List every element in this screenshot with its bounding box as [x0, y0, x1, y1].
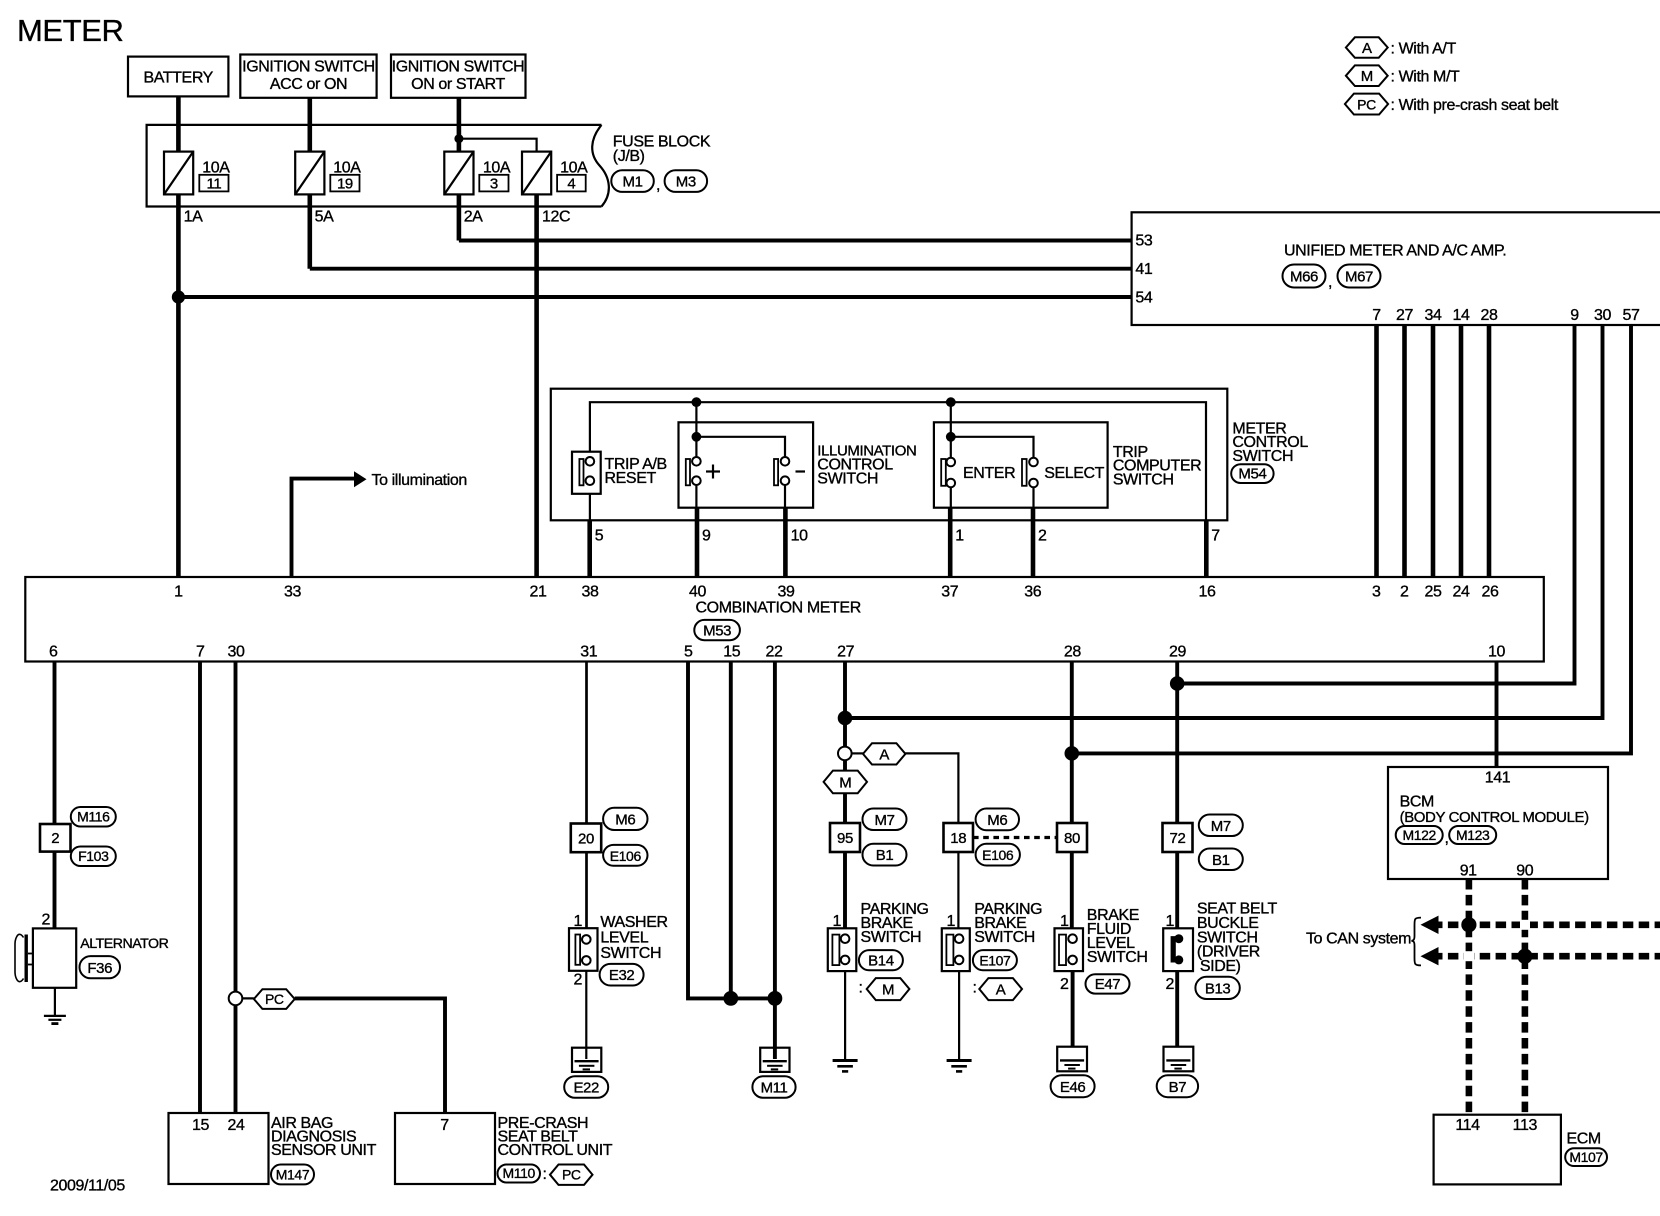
- connector B1: [863, 844, 907, 866]
- svg-text:B1: B1: [876, 847, 894, 864]
- wire unified pin 30 elbow to pin 27 column: [845, 325, 1603, 718]
- svg-text:27: 27: [837, 644, 854, 661]
- svg-text:,: ,: [1445, 830, 1449, 847]
- svg-text:2: 2: [574, 971, 583, 988]
- svg-text:WASHER: WASHER: [600, 914, 667, 931]
- ground B7 boxed: [1164, 1047, 1194, 1072]
- connector B7: [1157, 1075, 1198, 1097]
- wire A option stub: [852, 752, 863, 754]
- svg-text:1A: 1A: [184, 209, 203, 226]
- svg-text:M11: M11: [761, 1080, 788, 1097]
- hexagon M option: [867, 978, 910, 1000]
- connector E107: [973, 950, 1017, 970]
- connector E47: [1086, 974, 1130, 993]
- fuse F4: [522, 152, 551, 195]
- svg-text:BATTERY: BATTERY: [143, 70, 213, 87]
- svg-text:34: 34: [1425, 307, 1442, 324]
- wire meter pin 6 to alternator: [53, 662, 57, 929]
- connector M147: [271, 1165, 314, 1185]
- svg-text:E32: E32: [609, 967, 635, 984]
- svg-text:72: 72: [1170, 830, 1186, 847]
- seat belt buckle switch B13: [1163, 928, 1193, 1046]
- connector box 20 M6/E106: [571, 824, 601, 853]
- svg-text:M: M: [882, 982, 894, 999]
- parking brake switch B14: [828, 928, 857, 1060]
- CAN wire BCM 90 to ECM 113: [1522, 879, 1529, 1115]
- svg-text:14: 14: [1453, 307, 1470, 324]
- svg-text:26: 26: [1482, 584, 1499, 601]
- svg-text:53: 53: [1135, 232, 1152, 249]
- hexagon A option: [979, 978, 1022, 1000]
- ground E22 boxed: [572, 1048, 601, 1072]
- svg-text:COMBINATION METER: COMBINATION METER: [696, 599, 861, 616]
- wire battery feed column to pin 1: [176, 97, 181, 578]
- junction pin29/unified9: [1170, 676, 1185, 691]
- svg-text:27: 27: [1396, 307, 1413, 324]
- svg-text:F36: F36: [87, 960, 112, 977]
- svg-text:SWITCH: SWITCH: [861, 929, 922, 946]
- alternator box: [33, 928, 76, 987]
- svg-text:24: 24: [228, 1117, 245, 1134]
- svg-text:18: 18: [950, 830, 966, 847]
- svg-text:28: 28: [1481, 307, 1498, 324]
- parking brake switch E107: [942, 928, 970, 1060]
- connector M3: [665, 170, 708, 192]
- svg-text:UNIFIED METER AND A/C AMP.: UNIFIED METER AND A/C AMP.: [1284, 243, 1506, 260]
- hexagon PC: [254, 989, 295, 1009]
- svg-text:91: 91: [1460, 862, 1477, 879]
- svg-text:SELECT: SELECT: [1044, 465, 1104, 482]
- junction bus/illumination: [692, 397, 702, 407]
- connector M11: [752, 1076, 795, 1098]
- svg-text:M7: M7: [874, 812, 894, 829]
- svg-text:METER: METER: [17, 13, 124, 48]
- wire meter pin 7 to air bag unit pin 15: [198, 662, 202, 1114]
- svg-text:: With M/T: : With M/T: [1391, 69, 1461, 86]
- svg-text:B14: B14: [868, 953, 894, 970]
- wire ignition ON/START column: [457, 98, 462, 241]
- svg-text:ACC or ON: ACC or ON: [270, 76, 347, 93]
- connector box 80: [1057, 823, 1087, 852]
- svg-text:E106: E106: [610, 848, 642, 864]
- wire PC branch to pre-crash unit pin 7: [295, 998, 445, 1113]
- connector M67: [1338, 265, 1381, 288]
- ground B14: [833, 1061, 858, 1072]
- svg-text:SWITCH: SWITCH: [600, 945, 661, 962]
- wire meter pin 22 to M11 ground: [773, 662, 777, 1048]
- svg-text:2: 2: [42, 912, 51, 929]
- svg-text:1: 1: [574, 913, 583, 930]
- svg-text:M1: M1: [622, 173, 642, 190]
- svg-text:33: 33: [284, 584, 301, 601]
- fuse F11: [164, 152, 193, 195]
- svg-text:31: 31: [580, 644, 597, 661]
- unified meter and A/C amp box M66/M67: [1132, 212, 1660, 325]
- svg-text:1: 1: [1060, 913, 1069, 930]
- connector M110: [498, 1165, 541, 1183]
- dotted link box18-box80: [973, 836, 1057, 839]
- svg-text:M: M: [839, 775, 851, 792]
- brake fluid level switch E47: [1055, 928, 1084, 1046]
- svg-text:ECM: ECM: [1567, 1130, 1601, 1147]
- junction pin22/bus: [768, 991, 783, 1006]
- connector M123: [1449, 826, 1496, 844]
- svg-text:A: A: [879, 746, 889, 763]
- fuse block torn right edge: [592, 125, 609, 207]
- junction battery/54: [172, 290, 185, 303]
- wire unified pin 7 to meter pin 3: [1374, 325, 1379, 577]
- connector box 95 M7/B1: [830, 823, 860, 852]
- ignition switch ON or START box: [391, 55, 526, 98]
- svg-text:3: 3: [490, 175, 498, 192]
- svg-text:20: 20: [578, 831, 594, 848]
- select switch: [1022, 458, 1038, 508]
- svg-text:16: 16: [1199, 584, 1216, 601]
- svg-text:ALTERNATOR: ALTERNATOR: [80, 936, 168, 952]
- connector M1: [611, 170, 654, 192]
- air bag diagnosis sensor unit box M147: [169, 1113, 269, 1184]
- ground E107: [947, 1061, 972, 1072]
- connector E106: [603, 845, 647, 866]
- wire meter pin 27 to parking brake switch B14: [843, 662, 847, 935]
- combination meter box M53: [25, 577, 1544, 662]
- connector M54: [1231, 464, 1273, 483]
- svg-text:2: 2: [1038, 528, 1047, 545]
- svg-text:: With A/T: : With A/T: [1391, 41, 1457, 58]
- svg-text:B7: B7: [1169, 1079, 1187, 1096]
- option circle PC node: [229, 992, 243, 1006]
- svg-text:19: 19: [337, 175, 353, 192]
- svg-text:2: 2: [1060, 976, 1069, 993]
- svg-text:39: 39: [778, 584, 795, 601]
- svg-text:6: 6: [49, 644, 58, 661]
- fuse block (J/B) outline: [147, 125, 602, 207]
- svg-text:5A: 5A: [315, 209, 334, 226]
- svg-text:SWITCH: SWITCH: [1232, 448, 1293, 465]
- junction pin15/bus: [723, 991, 738, 1006]
- svg-text:F103: F103: [78, 848, 109, 864]
- ground E46 boxed: [1057, 1047, 1087, 1072]
- connector box 2 M116/F103: [40, 824, 71, 852]
- wire meter pin 15 to ground bus: [729, 662, 733, 999]
- CAN arrow upper: [1421, 916, 1439, 934]
- fuse number 19: [330, 175, 359, 193]
- svg-text:2: 2: [1400, 584, 1409, 601]
- svg-text:ENTER: ENTER: [963, 465, 1015, 482]
- svg-text:M107: M107: [1569, 1149, 1603, 1165]
- CAN wire BCM 91 to ECM 114: [1466, 879, 1473, 1115]
- svg-text:(J/B): (J/B): [613, 148, 645, 165]
- svg-text:: With pre-crash seat belt: : With pre-crash seat belt: [1391, 97, 1559, 114]
- plus sign: [706, 465, 720, 479]
- connector M122: [1396, 826, 1443, 844]
- svg-text:9: 9: [1570, 307, 1579, 324]
- wire unified pin 34 to meter pin 25: [1431, 325, 1436, 577]
- connector F103: [71, 847, 116, 867]
- svg-text:M123: M123: [1456, 827, 1490, 843]
- meter control switch bus wire: [590, 402, 1206, 520]
- svg-text:1: 1: [174, 584, 183, 601]
- svg-text::: :: [973, 980, 977, 997]
- wire switch pin 7 to meter pin 16: [1204, 520, 1209, 577]
- trip A/B reset switch: [572, 452, 601, 521]
- svg-text:2: 2: [51, 830, 59, 847]
- pre-crash seat belt control unit box M110: [395, 1113, 495, 1184]
- BCM box M122/M123: [1388, 767, 1608, 879]
- svg-text:7: 7: [196, 644, 205, 661]
- svg-text:SIDE): SIDE): [1200, 958, 1241, 975]
- option circle A/M split: [838, 747, 852, 761]
- svg-text:M53: M53: [703, 622, 731, 639]
- legend hexagon A: [1346, 37, 1388, 58]
- svg-text::: :: [543, 1166, 547, 1183]
- wire branch to fuse 4: [459, 139, 537, 153]
- svg-text:5: 5: [684, 644, 693, 661]
- svg-text:E106: E106: [982, 847, 1014, 863]
- svg-text:SWITCH: SWITCH: [1087, 949, 1148, 966]
- wire meter pin 29 to seat belt buckle switch: [1175, 662, 1179, 935]
- wire 41 net to unified meter: [310, 267, 1132, 271]
- wire unified pin 28 to meter pin 26: [1487, 325, 1492, 577]
- junction fuse4 branch: [454, 134, 463, 143]
- svg-text:38: 38: [582, 584, 599, 601]
- svg-text:141: 141: [1485, 769, 1511, 786]
- svg-text:PC: PC: [1357, 96, 1376, 112]
- svg-text:12C: 12C: [542, 209, 570, 226]
- junction bus/trip computer: [946, 397, 956, 407]
- wire 12C column to pin 21: [534, 152, 539, 577]
- svg-text:M110: M110: [503, 1165, 536, 1181]
- svg-text:28: 28: [1064, 644, 1081, 661]
- connector B14: [859, 950, 903, 970]
- wire unified pin 27 to meter pin 2: [1402, 325, 1407, 577]
- svg-text:M7: M7: [1211, 818, 1231, 835]
- svg-text:M116: M116: [77, 809, 110, 825]
- legend hexagon M: [1346, 65, 1388, 86]
- svg-text:M: M: [1361, 68, 1373, 85]
- wire switch pin 5 to meter pin 38: [587, 520, 592, 577]
- svg-text:30: 30: [1594, 307, 1611, 324]
- svg-text:10: 10: [1488, 644, 1505, 661]
- svg-text:3: 3: [1372, 584, 1381, 601]
- svg-text:7: 7: [1372, 307, 1381, 324]
- svg-text:40: 40: [689, 584, 706, 601]
- svg-text::: :: [859, 980, 863, 997]
- svg-text:E107: E107: [979, 953, 1011, 969]
- fuse number 11: [199, 175, 228, 193]
- illumination + switch: [686, 402, 785, 508]
- svg-text:B1: B1: [1212, 852, 1230, 869]
- illumination control switch inner box: [679, 422, 814, 507]
- svg-text:2: 2: [1166, 976, 1175, 993]
- brace: [1412, 918, 1422, 966]
- hexagon PC pre-crash: [550, 1165, 593, 1185]
- svg-text:2A: 2A: [464, 209, 483, 226]
- svg-text:M3: M3: [676, 173, 696, 190]
- svg-text:E22: E22: [573, 1080, 599, 1097]
- svg-text:E46: E46: [1060, 1079, 1086, 1096]
- wire switch pin 1 to meter pin 37: [948, 508, 953, 577]
- svg-text:1: 1: [955, 528, 964, 545]
- svg-text:M54: M54: [1238, 466, 1266, 483]
- hexagon A: [863, 743, 905, 764]
- svg-text:22: 22: [766, 644, 783, 661]
- svg-text:57: 57: [1623, 307, 1640, 324]
- svg-text:CONTROL UNIT: CONTROL UNIT: [498, 1142, 613, 1159]
- svg-text:PC: PC: [265, 991, 284, 1007]
- ECM box M107: [1434, 1115, 1561, 1185]
- svg-text:24: 24: [1453, 584, 1470, 601]
- wire meter pin 10 to BCM pin 141: [1495, 662, 1499, 768]
- svg-text:1: 1: [947, 913, 956, 930]
- ignition switch ACC or ON box: [240, 55, 376, 98]
- connector F36: [80, 956, 121, 978]
- fuse F3: [444, 152, 473, 195]
- svg-text:SWITCH: SWITCH: [1113, 472, 1174, 489]
- ground alternator: [44, 1016, 66, 1024]
- connector B1: [1199, 849, 1243, 871]
- illumination - switch: [774, 457, 789, 508]
- svg-text:21: 21: [530, 584, 547, 601]
- svg-text:25: 25: [1425, 584, 1442, 601]
- junction CAN lower/90: [1517, 949, 1532, 964]
- svg-text:90: 90: [1516, 862, 1533, 879]
- hexagon M: [824, 771, 867, 794]
- svg-text:1: 1: [833, 913, 842, 930]
- svg-text:M147: M147: [276, 1167, 310, 1183]
- svg-text:IGNITION SWITCH: IGNITION SWITCH: [392, 59, 525, 76]
- svg-text:SENSOR UNIT: SENSOR UNIT: [271, 1142, 377, 1159]
- svg-text:To CAN system: To CAN system: [1306, 931, 1411, 948]
- svg-text:7: 7: [440, 1117, 449, 1134]
- svg-text:15: 15: [723, 644, 740, 661]
- svg-text:RESET: RESET: [605, 470, 657, 487]
- legend hexagon PC: [1345, 94, 1388, 115]
- svg-text:A: A: [996, 982, 1006, 999]
- connector E22: [564, 1076, 608, 1098]
- svg-text:M66: M66: [1290, 269, 1318, 286]
- fuse number 4: [557, 175, 586, 193]
- svg-text:To illumination: To illumination: [372, 472, 467, 489]
- enter switch: [941, 402, 1033, 508]
- svg-text:B13: B13: [1205, 981, 1231, 998]
- alternator pulley symbol: [15, 934, 33, 982]
- svg-text:54: 54: [1135, 289, 1152, 306]
- wire 54 net to unified meter: [178, 295, 1131, 299]
- ground M11 boxed: [760, 1048, 789, 1072]
- svg-text:95: 95: [837, 830, 853, 847]
- svg-text:M122: M122: [1402, 827, 1436, 843]
- fuse F19: [295, 152, 324, 195]
- connector M107: [1565, 1148, 1607, 1166]
- meter control switch outer box M54: [551, 389, 1228, 521]
- wire switch pin 10 to meter pin 39: [783, 508, 788, 577]
- svg-text:11: 11: [207, 175, 222, 192]
- svg-text:37: 37: [941, 584, 958, 601]
- svg-text:29: 29: [1169, 644, 1186, 661]
- svg-text:,: ,: [656, 177, 660, 194]
- svg-text:A: A: [1362, 40, 1372, 57]
- svg-text:9: 9: [702, 528, 711, 545]
- svg-text:10: 10: [791, 528, 808, 545]
- wire alternator to ground: [54, 988, 56, 1016]
- CAN arrow lower: [1421, 947, 1439, 965]
- svg-text:M67: M67: [1345, 269, 1373, 286]
- wire ignition ACC column: [307, 98, 312, 269]
- wire meter pin 30 to air bag unit pin 24: [234, 662, 238, 1114]
- svg-text:,: ,: [1328, 274, 1332, 291]
- svg-text:41: 41: [1135, 261, 1152, 278]
- wire meter pin 31 to washer level switch: [585, 662, 588, 936]
- svg-text:ON or START: ON or START: [411, 76, 505, 93]
- svg-text:36: 36: [1024, 584, 1041, 601]
- connector box 18 M6/E106: [944, 823, 974, 852]
- svg-text:80: 80: [1064, 830, 1080, 847]
- svg-text:4: 4: [567, 175, 575, 192]
- svg-text:2009/11/05: 2009/11/05: [50, 1178, 125, 1195]
- svg-text:IGNITION SWITCH: IGNITION SWITCH: [242, 59, 375, 76]
- fuse number 3: [479, 175, 508, 193]
- connector box 72 M7/B1: [1163, 823, 1193, 852]
- svg-text:7: 7: [1211, 528, 1220, 545]
- connector M7: [863, 809, 907, 831]
- wire unified pin 14 to meter pin 24: [1459, 325, 1464, 577]
- svg-text:SWITCH: SWITCH: [817, 470, 878, 487]
- connector M53: [694, 620, 740, 640]
- connector M66: [1283, 265, 1326, 288]
- connector B13: [1195, 977, 1239, 999]
- wire PC option stub: [236, 997, 254, 999]
- svg-text:30: 30: [228, 644, 245, 661]
- CAN bus upper line: [1432, 921, 1660, 928]
- connector M6: [603, 808, 647, 830]
- connector E46: [1051, 1075, 1095, 1097]
- junction pin28/unified57: [1065, 746, 1080, 761]
- washer level switch E32: [569, 928, 598, 1059]
- trip computer switch inner box: [934, 422, 1108, 507]
- connector M7: [1199, 815, 1243, 837]
- connector E106: [976, 844, 1020, 866]
- wire 53 net to unified meter: [459, 239, 1132, 243]
- junction pin27/unified30: [838, 711, 853, 726]
- wire to illumination with arrow: [292, 479, 356, 577]
- connector M6: [976, 809, 1019, 831]
- svg-text:LEVEL: LEVEL: [600, 930, 648, 947]
- CAN bus lower line: [1432, 953, 1660, 960]
- wire A branch to parking brake switch E107: [905, 753, 958, 934]
- battery box: [128, 57, 228, 97]
- wire switch pin 2 to meter pin 36: [1031, 508, 1036, 577]
- svg-text:5: 5: [595, 528, 604, 545]
- svg-text:113: 113: [1513, 1117, 1538, 1134]
- svg-text:PC: PC: [562, 1167, 581, 1183]
- crossing breaks: [1520, 920, 1530, 930]
- wire unified pin 57 elbow to pin 28 column: [1072, 325, 1631, 753]
- svg-text:E47: E47: [1095, 976, 1121, 993]
- svg-text:SWITCH: SWITCH: [974, 929, 1035, 946]
- wire unified pin 9 elbow to pin 29 column: [1177, 325, 1574, 684]
- connector E32: [600, 964, 644, 986]
- wire meter pin 5 ground bus: [688, 662, 775, 999]
- svg-text:M6: M6: [615, 812, 635, 829]
- svg-text:114: 114: [1455, 1117, 1480, 1134]
- minus sign: [796, 470, 806, 472]
- svg-text:M6: M6: [987, 812, 1007, 829]
- arrow head to illumination: [354, 471, 367, 487]
- connector M116: [71, 807, 116, 827]
- wire switch pin 9 to meter pin 40: [695, 508, 700, 577]
- wire meter pin 28 to brake fluid switch: [1070, 662, 1074, 935]
